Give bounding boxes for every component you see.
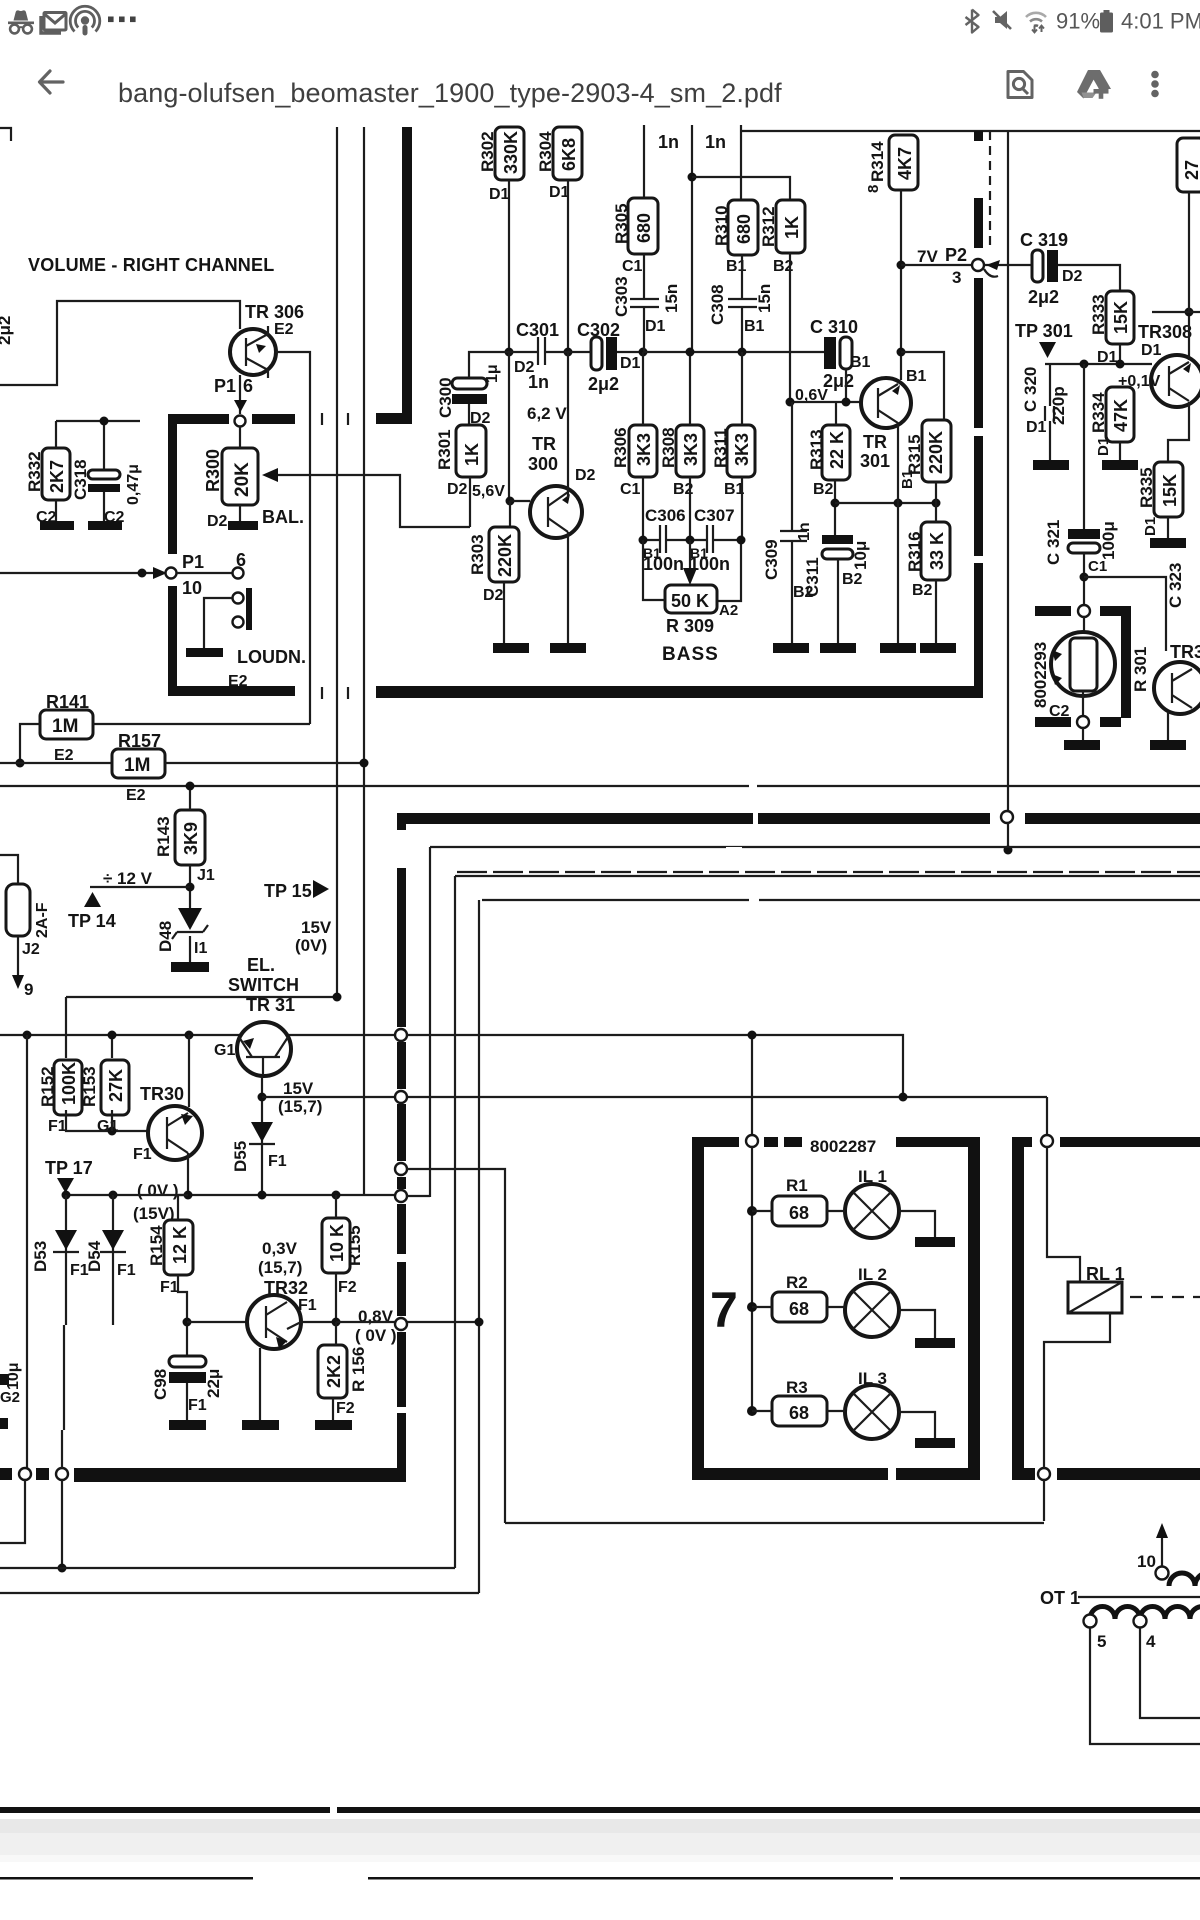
- svg-text:G1: G1: [214, 1042, 235, 1059]
- wire R3 left: [752, 1410, 772, 1412]
- transistor TR308: [1151, 355, 1200, 407]
- dashed wire RL1: [1130, 1296, 1200, 1298]
- transistor TR306: [230, 326, 276, 378]
- junction dot 0,8V: [332, 1318, 341, 1327]
- transistor TR301: [861, 378, 911, 428]
- wire IL2 right: [899, 1310, 935, 1338]
- svg-text:220K: 220K: [926, 431, 946, 474]
- ground R316: [920, 643, 956, 653]
- svg-text:F1: F1: [160, 1279, 179, 1296]
- svg-text:(15,7): (15,7): [258, 1258, 302, 1277]
- svg-text:B1: B1: [850, 354, 871, 371]
- resistor R334: [1106, 387, 1134, 442]
- capacitor C98: [169, 1356, 206, 1383]
- wire R334 bottom: [1119, 442, 1121, 460]
- svg-text:1K: 1K: [462, 443, 482, 466]
- resistor R314: [889, 135, 918, 190]
- resistor R3: [772, 1396, 827, 1426]
- wire C323 branch: [1084, 577, 1166, 651]
- svg-text:P1: P1: [214, 376, 236, 396]
- wire module bottom: [1082, 691, 1084, 716]
- svg-text:R316: R316: [905, 531, 924, 572]
- thin rail x310: [309, 420, 311, 724]
- junction dot collector node: [897, 348, 906, 357]
- wire TR31 emitter: [261, 1076, 263, 1195]
- rail x1008: [1007, 131, 1009, 817]
- svg-text:E2: E2: [54, 747, 74, 764]
- junction dot y1035 x28: [23, 1031, 32, 1040]
- wire x67 down: [65, 997, 67, 1058]
- resistor R315: [922, 420, 951, 482]
- wire x25 below: [0, 1480, 25, 1543]
- svg-text:÷ 12 V: ÷ 12 V: [103, 869, 153, 888]
- junction dot R3: [747, 1406, 757, 1416]
- svg-text:C 320: C 320: [1021, 367, 1040, 412]
- wire R157 to x362: [165, 762, 364, 764]
- wire y786 full: [0, 785, 1200, 787]
- svg-text:TR3: TR3: [1170, 642, 1200, 662]
- thick bar bottom pot block: [168, 686, 295, 696]
- wire R154 bottom: [178, 1275, 187, 1356]
- resistor R300: [222, 448, 258, 505]
- wire P1 wiper link: [177, 572, 232, 574]
- resistor R157: [112, 749, 165, 778]
- svg-text:1n: 1n: [796, 522, 813, 541]
- gmail icon: [41, 13, 66, 34]
- mute icon: [993, 11, 1011, 29]
- wire TR306 emitter to x310 rail: [276, 352, 310, 420]
- svg-text:1K: 1K: [782, 216, 802, 239]
- testpoint TP15 arrow: [313, 880, 329, 898]
- open circle pot top: [235, 416, 246, 427]
- svg-text:TP 301: TP 301: [1015, 321, 1073, 341]
- svg-text:R314: R314: [868, 141, 887, 182]
- svg-text:C308: C308: [708, 284, 727, 325]
- wire IL3 right: [899, 1412, 935, 1438]
- svg-text:R3: R3: [786, 1378, 808, 1397]
- open circle tap5: [1084, 1615, 1097, 1628]
- svg-text:20K: 20K: [232, 462, 253, 497]
- rail break marks y419: [322, 413, 348, 425]
- seam gaps: [726, 784, 759, 903]
- wire R312 down: [789, 253, 791, 402]
- svg-text:C306: C306: [645, 506, 686, 525]
- svg-text:C98: C98: [151, 1369, 170, 1400]
- svg-text:27K: 27K: [106, 1069, 126, 1102]
- svg-text:I1: I1: [194, 940, 207, 957]
- open circle module x752: [746, 1135, 758, 1147]
- resistor R301: [456, 425, 486, 477]
- wire R332 C318 tops: [56, 421, 140, 470]
- svg-text:C307: C307: [694, 506, 735, 525]
- svg-text:R310: R310: [712, 205, 731, 246]
- svg-text:F1: F1: [268, 1153, 287, 1170]
- transformer OT1 core line: [1078, 1596, 1200, 1598]
- wire R152 top: [188, 1035, 190, 1107]
- svg-text:D54: D54: [85, 1240, 104, 1272]
- wire R313 bottom: [834, 480, 836, 540]
- wire R335 bottom: [1167, 517, 1169, 538]
- wire 27 down: [1188, 192, 1190, 312]
- thick bar x407: [402, 127, 412, 420]
- svg-text:15K: 15K: [1111, 301, 1131, 334]
- ground R335: [1150, 538, 1186, 548]
- svg-text:( 0V ): ( 0V ): [355, 1326, 397, 1345]
- wire y1521: [505, 1522, 1044, 1524]
- testpoint TP301 arrow: [1039, 342, 1056, 358]
- wire +12V: [90, 886, 190, 888]
- svg-text:10μ: 10μ: [5, 1362, 22, 1390]
- svg-text:0,8V: 0,8V: [358, 1307, 394, 1326]
- svg-text:10: 10: [1137, 1552, 1156, 1571]
- thick bar left side pot block: [168, 414, 177, 554]
- junction dot y1195 x262: [258, 1191, 267, 1200]
- resistor R312: [776, 200, 805, 253]
- wire R2 to IL2: [827, 1306, 845, 1308]
- resistor R141: [40, 710, 93, 739]
- diode D53: [53, 1195, 79, 1430]
- wire R301 bottom L: [469, 477, 471, 527]
- svg-text:F1: F1: [117, 1262, 136, 1279]
- svg-text:EL.: EL.: [247, 955, 275, 975]
- svg-text:R152: R152: [38, 1066, 57, 1107]
- svg-text:3K3: 3K3: [634, 433, 654, 466]
- wire x1008 to y850: [1007, 823, 1009, 850]
- ground below C318: [88, 521, 122, 530]
- wire C310 right: [845, 369, 847, 402]
- svg-text:33 K: 33 K: [927, 532, 947, 570]
- ground R334: [1102, 460, 1138, 470]
- svg-text:3K3: 3K3: [681, 433, 701, 466]
- module 8002293 border top-left: [1035, 606, 1071, 616]
- wire C303 to node: [643, 307, 645, 352]
- wire C318 to ground: [103, 492, 105, 521]
- junction dot C323 tap: [1080, 573, 1089, 582]
- potentiometer R309: [665, 585, 717, 613]
- kebab menu: [1151, 71, 1159, 98]
- wire TR308 emitter to R335: [1168, 402, 1189, 462]
- wire IL1 right: [899, 1211, 935, 1237]
- wire y177: [692, 177, 790, 200]
- wire below module: [1082, 728, 1084, 740]
- junction dot R2: [747, 1302, 757, 1312]
- junction dot R157: [16, 759, 25, 768]
- open circle bottom bus x25: [19, 1468, 31, 1480]
- transformer OT1 primary coil: [1090, 1606, 1200, 1619]
- thick bar bass bottom: [376, 686, 983, 698]
- svg-text:220K: 220K: [495, 534, 515, 577]
- svg-text:VOLUME - RIGHT CHANNEL: VOLUME - RIGHT CHANNEL: [28, 255, 274, 275]
- wire emitter col x1084: [1083, 364, 1085, 529]
- partial cap left edge: [0, 1374, 9, 1429]
- capacitor C308: [728, 299, 757, 307]
- wire R333 bottom: [1119, 344, 1121, 364]
- svg-text:C 319: C 319: [1020, 230, 1068, 250]
- battery icon: [1100, 10, 1113, 33]
- wire TR32 emitter: [259, 1348, 261, 1420]
- wire input to R157: [0, 762, 112, 764]
- ground TR300 emitter: [550, 643, 586, 653]
- svg-text:C309: C309: [762, 539, 781, 580]
- open circle bus y817: [1001, 811, 1013, 823]
- svg-text:4K7: 4K7: [895, 147, 915, 180]
- junction dot y503 left: [831, 499, 840, 508]
- thick bus horizontal y817: [398, 813, 1200, 824]
- svg-text:R154: R154: [147, 1225, 166, 1266]
- wire 0V y1195: [66, 1194, 396, 1196]
- svg-text:1n: 1n: [528, 372, 549, 392]
- svg-text:C318: C318: [71, 459, 90, 500]
- wire 15V y1097: [262, 1096, 1047, 1098]
- resistor R2: [772, 1292, 827, 1322]
- svg-text:C 321: C 321: [1044, 520, 1063, 565]
- wiper cross symbol P1-10: [138, 569, 147, 578]
- ground C311: [820, 643, 856, 653]
- wire R143 top: [189, 786, 191, 810]
- thick bar foot: [376, 413, 412, 424]
- wire C302 span: [568, 351, 643, 353]
- svg-text:R304: R304: [536, 131, 555, 172]
- capacitor C320: [1045, 406, 1054, 421]
- svg-text:TR 31: TR 31: [246, 995, 295, 1015]
- wire into module: [1083, 617, 1085, 632]
- toolbar: [0, 40, 1200, 125]
- svg-text:R334: R334: [1089, 392, 1108, 433]
- svg-text:R313: R313: [807, 429, 826, 470]
- svg-text:6,2 V: 6,2 V: [527, 404, 567, 423]
- resistor R152: [54, 1060, 82, 1115]
- svg-text:R306: R306: [611, 427, 630, 468]
- wire R311 top: [741, 352, 743, 425]
- open circle tap10: [1156, 1567, 1169, 1580]
- wire R305 to C303: [643, 254, 645, 299]
- thick bottom bus bar: [0, 1468, 405, 1482]
- wire volume input: [0, 572, 163, 574]
- back arrow: [40, 71, 64, 93]
- svg-text:D1: D1: [1141, 342, 1162, 359]
- resistor R311: [727, 425, 755, 477]
- junction dot y503 right: [932, 499, 941, 508]
- module relay bottom border: [1012, 1468, 1200, 1480]
- svg-text:1M: 1M: [124, 755, 150, 776]
- corner fragment top-left: [0, 128, 11, 141]
- wire TR302 emitter ground: [1167, 712, 1169, 740]
- ground R156: [315, 1420, 352, 1430]
- svg-text:8002287: 8002287: [810, 1137, 876, 1156]
- svg-text:D1: D1: [489, 186, 510, 203]
- capacitor C318: [88, 470, 120, 492]
- nested line y900: [482, 899, 1200, 901]
- nested vertical x455: [454, 876, 456, 1568]
- switch bar: [246, 588, 252, 630]
- wire y1593: [0, 1592, 479, 1594]
- capacitor C301: [538, 337, 545, 365]
- status bar: [0, 0, 1200, 40]
- testpoint TP17 arrow: [57, 1178, 74, 1193]
- wire R304 down: [567, 180, 569, 352]
- wire base rail x510: [508, 352, 510, 501]
- wire R141 left to R157 node: [20, 724, 40, 763]
- nested line y875: [455, 875, 1200, 877]
- transistor TR32: [247, 1295, 301, 1349]
- svg-text:R2: R2: [786, 1273, 808, 1292]
- open circle module bottom: [1077, 716, 1089, 728]
- wire R152 bottom: [66, 1110, 149, 1131]
- testpoint TP14 arrow: [84, 892, 101, 907]
- fuse 2A-F: [0, 855, 30, 975]
- svg-text:680: 680: [634, 213, 654, 243]
- ground IL1: [915, 1237, 955, 1247]
- svg-text:R302: R302: [478, 131, 497, 172]
- open circle tap4: [1134, 1615, 1147, 1628]
- svg-text:E2: E2: [274, 321, 294, 338]
- svg-text:R315: R315: [905, 434, 924, 475]
- svg-text:( 0V ): ( 0V ): [137, 1181, 179, 1200]
- svg-text:C1: C1: [1088, 558, 1107, 575]
- svg-text:D2: D2: [1062, 268, 1083, 285]
- junction dot y1097 x903: [899, 1093, 908, 1102]
- module 8002287 right border: [968, 1137, 980, 1470]
- wire TR306 to P1 wiper: [239, 375, 241, 414]
- ground below R300: [228, 521, 258, 530]
- svg-text:D1: D1: [1095, 437, 1112, 456]
- svg-text:R 156: R 156: [349, 1347, 368, 1392]
- svg-text:D55: D55: [231, 1141, 250, 1172]
- svg-text:0,47μ: 0,47μ: [125, 464, 142, 505]
- resistor R316: [921, 522, 950, 580]
- wire C98 bottom: [186, 1383, 188, 1420]
- open circle bus y1169: [395, 1163, 407, 1175]
- switch contact lower: [233, 617, 244, 628]
- svg-text:22 K: 22 K: [827, 431, 847, 469]
- svg-text:R303: R303: [468, 534, 487, 575]
- svg-text:B1: B1: [726, 258, 747, 275]
- open circle module bottom x1044: [1038, 1468, 1050, 1480]
- svg-text:4:01 PM: 4:01 PM: [1121, 9, 1200, 34]
- svg-text:6: 6: [243, 376, 253, 396]
- svg-text:R1: R1: [786, 1176, 808, 1195]
- svg-text:15K: 15K: [1160, 474, 1180, 507]
- nested vertical x479: [478, 900, 480, 1593]
- svg-text:TP 15: TP 15: [264, 881, 312, 901]
- arrow tap 10: [1161, 1532, 1163, 1566]
- svg-text:P1: P1: [182, 552, 204, 572]
- wire RL1 bottom: [1044, 1313, 1110, 1468]
- svg-text:5,6V: 5,6V: [472, 483, 505, 500]
- svg-text:R333: R333: [1089, 294, 1108, 335]
- svg-text:100μ: 100μ: [1099, 521, 1118, 560]
- wire y1035 right segment: [407, 1035, 903, 1097]
- module 8002287 left border: [692, 1137, 739, 1470]
- svg-text:100n: 100n: [643, 554, 684, 574]
- svg-text:C302: C302: [577, 320, 620, 340]
- svg-text:68: 68: [789, 1403, 809, 1423]
- wire TR301 base: [790, 401, 862, 403]
- wire y352 bass: [643, 351, 827, 353]
- svg-text:47K: 47K: [1111, 399, 1131, 432]
- svg-text:R153: R153: [80, 1066, 99, 1107]
- overflow dots: [108, 17, 136, 23]
- svg-text:R312: R312: [759, 206, 778, 247]
- open circle bus y1097: [395, 1091, 407, 1103]
- ground TR32: [242, 1420, 279, 1430]
- module 8002293 border top-right: [1100, 606, 1131, 718]
- diode D55: [249, 1122, 275, 1144]
- P1 wiper arrow: [234, 400, 247, 412]
- wire TR308 base: [1045, 363, 1152, 365]
- open circle bus y1324: [395, 1318, 407, 1330]
- wire R310 to C308: [741, 255, 743, 299]
- wire C306 C307 to R309: [643, 539, 741, 541]
- svg-text:J2: J2: [22, 941, 40, 958]
- arrows into 8002293: [1052, 650, 1062, 685]
- resistor R143: [175, 810, 205, 865]
- wire R300 bottom to ground: [239, 505, 241, 521]
- resistor R156: [318, 1345, 347, 1398]
- svg-text:OT 1: OT 1: [1040, 1588, 1080, 1608]
- capacitor C319: [1032, 250, 1058, 282]
- svg-text:D2: D2: [207, 513, 228, 530]
- wire TR300 collector up: [567, 352, 569, 498]
- transistor TR30: [148, 1106, 202, 1160]
- resistor R305: [628, 198, 658, 254]
- svg-text:TR308: TR308: [1138, 322, 1192, 342]
- junction dot base TR300: [506, 497, 515, 506]
- svg-text:E2: E2: [126, 787, 146, 804]
- ground loudness: [186, 648, 223, 657]
- module 8002287 bottom border: [692, 1468, 980, 1480]
- wire R332 to ground: [55, 500, 57, 521]
- wire x752 inside module: [751, 1147, 753, 1411]
- svg-text:R332: R332: [25, 451, 44, 492]
- wire TR32 base: [187, 1321, 247, 1323]
- open circle bottom bus x62: [56, 1468, 68, 1480]
- svg-text:R143: R143: [154, 816, 173, 857]
- ground TR301: [880, 643, 916, 653]
- svg-text:91%: 91%: [1056, 9, 1100, 34]
- svg-text:TR: TR: [863, 432, 887, 452]
- svg-text:300: 300: [528, 454, 558, 474]
- resistor R308: [676, 425, 704, 477]
- svg-text:R155: R155: [345, 1225, 364, 1266]
- wire C309 column: [791, 402, 793, 643]
- open circle module x1047: [1041, 1135, 1053, 1147]
- svg-text:C1: C1: [622, 258, 643, 275]
- svg-text:B2: B2: [912, 582, 933, 599]
- dashed thick bus x979: [974, 131, 983, 698]
- wire R153 bottom to TR30 base: [111, 1110, 113, 1131]
- capacitor C321: [1068, 529, 1100, 553]
- svg-text:F1: F1: [188, 1397, 207, 1414]
- svg-text:1μ: 1μ: [484, 364, 501, 383]
- thin rail x337: [336, 127, 338, 997]
- lamp IL2: [845, 1283, 899, 1337]
- wire R314 down: [900, 190, 902, 380]
- svg-text:3K9: 3K9: [181, 822, 201, 855]
- capacitor C307: [707, 525, 713, 553]
- wire R313 top: [835, 402, 837, 425]
- svg-text:D2: D2: [447, 481, 468, 498]
- svg-text:R157: R157: [118, 731, 161, 751]
- svg-text:D48: D48: [156, 921, 175, 952]
- junction dot +12V: [186, 883, 195, 892]
- nested line y871: [457, 871, 1200, 873]
- svg-text:(0V): (0V): [295, 936, 327, 955]
- svg-text:2μ2: 2μ2: [0, 316, 14, 345]
- svg-text:10 K: 10 K: [327, 1224, 347, 1262]
- svg-text:15n: 15n: [662, 284, 681, 313]
- wire C319 to R333: [1058, 265, 1120, 291]
